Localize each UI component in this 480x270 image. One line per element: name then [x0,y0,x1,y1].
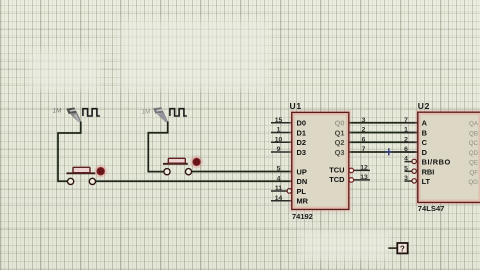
svg-text:D1: D1 [297,128,306,137]
svg-text:1M: 1M [53,108,61,114]
svg-text:?: ? [400,245,405,254]
svg-text:Q3: Q3 [335,148,345,157]
svg-text:U2: U2 [418,101,430,111]
svg-text:PL: PL [297,187,307,196]
svg-text:U1: U1 [290,101,302,111]
svg-text:DN: DN [297,177,308,186]
svg-text:15: 15 [275,117,283,124]
svg-text:LT: LT [422,177,431,186]
svg-text:7: 7 [404,117,408,124]
svg-text:13: 13 [360,174,368,181]
svg-text:QG: QG [468,179,478,186]
svg-text:Q0: Q0 [335,119,345,128]
svg-text:4: 4 [404,156,408,163]
svg-text:QA: QA [469,121,479,128]
svg-text:QB: QB [469,130,478,137]
svg-text:1M: 1M [142,109,150,115]
svg-text:QC: QC [469,140,479,147]
svg-text:2: 2 [362,127,366,134]
svg-text:5: 5 [404,165,408,172]
svg-text:MR: MR [297,197,309,206]
svg-text:14: 14 [275,195,283,202]
svg-text:QD: QD [469,150,479,157]
svg-text:B: B [422,128,427,137]
svg-text:D2: D2 [297,138,306,147]
svg-text:D: D [422,148,428,157]
svg-text:Q2: Q2 [335,138,345,147]
svg-text:12: 12 [360,164,368,171]
svg-text:10: 10 [275,136,283,143]
svg-text:9: 9 [277,146,281,153]
svg-text:74LS47: 74LS47 [418,204,445,213]
svg-text:2: 2 [404,136,408,143]
svg-text:D3: D3 [297,148,306,157]
svg-text:BI/RBO: BI/RBO [422,158,451,167]
svg-text:11: 11 [275,185,282,192]
svg-text:QF: QF [469,169,478,176]
svg-text:C: C [422,138,428,147]
svg-text:TCD: TCD [329,175,345,184]
svg-text:5: 5 [277,166,281,173]
svg-text:4: 4 [277,175,281,182]
svg-text:6: 6 [362,136,366,143]
svg-text:1: 1 [277,127,281,134]
svg-text:Q1: Q1 [335,128,345,137]
svg-text:A: A [422,119,428,128]
svg-text:7: 7 [362,146,366,153]
svg-text:RBI: RBI [422,167,435,176]
svg-text:UP: UP [297,167,307,176]
svg-text:3: 3 [404,175,408,182]
svg-text:6: 6 [404,146,408,153]
svg-text:D0: D0 [297,119,306,128]
svg-text:74192: 74192 [292,212,313,221]
svg-text:3: 3 [362,117,366,124]
svg-text:QE: QE [469,160,478,167]
svg-text:TCU: TCU [329,166,344,175]
svg-text:1: 1 [404,127,408,134]
